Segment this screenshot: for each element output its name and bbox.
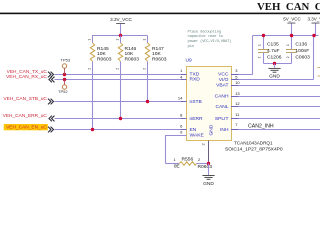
resistor R146 <box>115 36 139 119</box>
capacitor C135 <box>258 36 282 64</box>
svg-text:C1206: C1206 <box>267 55 282 61</box>
chevron in RX <box>49 77 55 83</box>
svg-text:2: 2 <box>200 143 205 146</box>
pin names right <box>215 72 229 134</box>
svg-text:2: 2 <box>142 68 146 70</box>
junction C135 top <box>262 34 265 37</box>
right edge ticks <box>318 67 320 69</box>
resistor R145 <box>87 35 111 130</box>
svg-text:capacitor near to: capacitor near to <box>188 34 224 39</box>
svg-text:VEH_CAN_STB_uC: VEH_CAN_STB_uC <box>3 96 47 102</box>
svg-text:RXD: RXD <box>190 77 201 83</box>
svg-text:nSTB: nSTB <box>190 99 202 105</box>
svg-text:5V_VCC: 5V_VCC <box>283 16 301 21</box>
wire VCC pin3 <box>232 74 253 76</box>
junction 3.3V top <box>312 34 315 37</box>
wire GND pin2 <box>208 141 210 164</box>
capacitor C136 <box>286 36 310 64</box>
svg-text:R0603: R0603 <box>198 164 213 170</box>
wire 5V top bus <box>253 35 319 37</box>
svg-text:7: 7 <box>235 122 238 127</box>
svg-text:GND: GND <box>269 73 280 79</box>
wire CANH pin13 <box>232 96 320 98</box>
svg-text:CANL: CANL <box>215 104 228 110</box>
svg-text:9: 9 <box>180 129 183 134</box>
svg-text:U9: U9 <box>186 57 193 63</box>
svg-text:VEH CAN C: VEH CAN C <box>257 1 320 13</box>
junction R146-ERR <box>119 117 122 120</box>
IC U9 TCAN1043ADRQ1 body <box>187 67 232 141</box>
wire 3.3V pullup bus <box>93 35 148 37</box>
svg-text:VBAT: VBAT <box>216 83 228 89</box>
wire VCC riser <box>252 36 254 75</box>
svg-text:CAN2_INH: CAN2_INH <box>248 123 274 129</box>
power 3.3V_VCC left <box>110 17 132 36</box>
svg-text:R0603: R0603 <box>152 56 167 62</box>
svg-text:5: 5 <box>235 75 238 80</box>
wire RX <box>55 79 187 81</box>
svg-text:C136: C136 <box>295 41 307 47</box>
border line <box>0 13 320 15</box>
ground main <box>202 176 214 180</box>
svg-text:power (VCC,VI/O,VBAT): power (VCC,VI/O,VBAT) <box>188 39 232 44</box>
svg-text:WAKE: WAKE <box>190 132 205 138</box>
svg-text:2: 2 <box>198 157 201 162</box>
wire 3.3V drop <box>313 36 315 80</box>
wire WAKE <box>166 136 187 164</box>
junction on bus <box>119 34 122 37</box>
svg-text:VCC: VCC <box>218 72 229 78</box>
testpoint TP53 <box>61 57 71 74</box>
svg-text:4.7uF: 4.7uF <box>267 48 280 54</box>
svg-text:C135: C135 <box>267 41 279 47</box>
wire STB <box>55 101 187 103</box>
chevron out STB <box>48 99 54 105</box>
svg-text:1: 1 <box>180 68 183 73</box>
svg-text:10: 10 <box>235 80 240 85</box>
svg-text:TP53: TP53 <box>61 57 71 62</box>
power 3.3V_VCC right (cut off) <box>308 16 320 35</box>
svg-text:EN: EN <box>190 127 197 133</box>
svg-text:Place decoupling: Place decoupling <box>188 29 222 34</box>
svg-text:1: 1 <box>142 39 146 41</box>
wire VBAT pin10 <box>232 85 320 87</box>
svg-text:3.3V_VCC: 3.3V_VCC <box>110 17 132 22</box>
svg-text:nERR: nERR <box>190 116 204 122</box>
svg-text:2: 2 <box>258 56 262 58</box>
ground caps <box>268 64 280 73</box>
svg-text:C0603: C0603 <box>295 55 310 61</box>
svg-text:VEH_CAN_ERR_uC: VEH_CAN_ERR_uC <box>3 113 48 119</box>
wire INH pin7 <box>232 129 320 131</box>
svg-text:12: 12 <box>235 101 240 106</box>
pin numbers left <box>178 68 183 134</box>
svg-text:1: 1 <box>174 157 177 162</box>
svg-text:10K: 10K <box>125 51 134 57</box>
svg-text:TP52: TP52 <box>58 89 68 94</box>
svg-text:SPLIT: SPLIT <box>215 116 229 122</box>
svg-text:CANH: CANH <box>215 94 229 100</box>
resistor R147 <box>142 36 166 102</box>
junction R556 gnd <box>207 162 210 165</box>
svg-text:8: 8 <box>180 113 183 118</box>
svg-text:R556: R556 <box>182 157 194 163</box>
svg-text:2: 2 <box>286 56 290 58</box>
pin names left <box>190 72 205 139</box>
power 5V_VCC <box>283 16 301 35</box>
wire to ground <box>208 164 210 176</box>
chevron out TX <box>48 72 54 78</box>
svg-text:VEH_CAN_RX_uC: VEH_CAN_RX_uC <box>6 74 47 80</box>
svg-text:VEH_CAN_EN_uC: VEH_CAN_EN_uC <box>6 124 47 130</box>
pin numbers right <box>235 68 240 127</box>
svg-text:4: 4 <box>180 74 183 79</box>
svg-text:GND: GND <box>203 181 214 187</box>
svg-text:10K: 10K <box>152 51 161 57</box>
svg-text:R0603: R0603 <box>97 56 112 62</box>
svg-text:2: 2 <box>115 68 119 70</box>
svg-text:1: 1 <box>87 39 91 41</box>
wire CANL pin12 <box>232 106 320 108</box>
wire caps bottom bus <box>264 63 292 65</box>
port VEH_CAN_EN_uC highlighted <box>4 124 48 130</box>
junction TP53 on TX <box>63 73 66 76</box>
pin stubs <box>181 75 239 136</box>
junction R145-EN <box>91 128 94 131</box>
wire ERR <box>55 118 187 120</box>
svg-text:11: 11 <box>235 112 240 117</box>
wire EN <box>55 129 187 131</box>
junction C136 top <box>290 34 293 37</box>
svg-text:1: 1 <box>258 44 262 46</box>
wire VIO pin5 <box>232 79 314 81</box>
svg-text:SOIC14_1P27_8P75X4P0: SOIC14_1P27_8P75X4P0 <box>225 147 283 153</box>
svg-text:1: 1 <box>286 44 290 46</box>
chevron out EN <box>48 127 54 133</box>
svg-text:10K: 10K <box>97 51 106 57</box>
svg-text:3.3V_VCC: 3.3V_VCC <box>308 16 320 21</box>
svg-text:GND: GND <box>209 124 215 135</box>
svg-text:1: 1 <box>115 39 119 41</box>
chevron in ERR <box>49 116 55 122</box>
svg-text:100nF: 100nF <box>295 48 309 54</box>
junction caps gnd <box>273 62 276 65</box>
svg-text:pin: pin <box>188 44 195 49</box>
svg-text:0E: 0E <box>174 163 181 169</box>
svg-text:TCAN1043ADRQ1: TCAN1043ADRQ1 <box>234 140 273 145</box>
testpoint TP52 <box>58 80 68 95</box>
svg-text:14: 14 <box>178 96 183 101</box>
wire SPLIT pin11 <box>232 118 320 120</box>
svg-text:INH: INH <box>220 127 229 133</box>
note text <box>188 29 232 48</box>
junction R147-STB <box>146 100 149 103</box>
svg-text:13: 13 <box>235 91 240 96</box>
svg-text:R0603: R0603 <box>125 56 140 62</box>
svg-text:6: 6 <box>180 123 183 128</box>
resistor R556 <box>166 157 213 170</box>
svg-text:2: 2 <box>87 68 91 70</box>
svg-text:VI/O: VI/O <box>219 77 229 83</box>
junction TP52 on RX <box>63 78 66 81</box>
wire TX <box>55 74 187 76</box>
svg-text:3: 3 <box>235 68 238 73</box>
